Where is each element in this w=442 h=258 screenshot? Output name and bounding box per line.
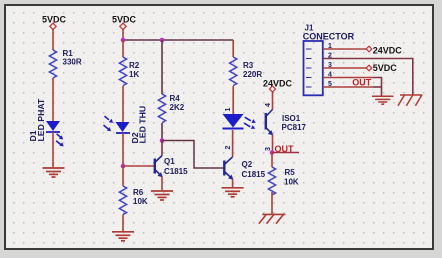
svg-text:Q2: Q2 [242,160,253,169]
wire R3 to opto anode [232,86,234,114]
wire 24VDC to pin 4 [272,92,274,110]
ground (Q2) [222,188,244,197]
svg-text:24VDC: 24VDC [263,79,293,89]
wire 5VDC to bus node [122,30,124,40]
wire pin 3 emitter to OUT node [272,135,274,153]
resistor R4 2K2 [158,94,184,123]
connector J1 body [303,24,355,96]
wire Q2 emitter to ground [232,179,234,187]
svg-text:10K: 10K [284,178,299,187]
node junction (OUT) [270,150,275,155]
svg-text:OUT: OUT [352,77,372,87]
svg-text:CONECTOR: CONECTOR [303,31,355,41]
wire pin5 OUT end [373,86,382,88]
svg-text:R4: R4 [170,94,181,103]
svg-text:220R: 220R [243,70,262,79]
wire node to R6 [122,166,124,186]
wire node to Q1 collector [161,141,163,156]
power flag 24VDC (at ISO1) [263,79,293,93]
svg-text:LED PHAT: LED PHAT [36,98,46,141]
wire 5VDC to R1 [52,30,54,50]
wire OUT node to R5 [271,153,273,168]
svg-text:OUT: OUT [275,144,295,154]
wire Q1 emitter to ground [161,177,163,191]
svg-text:R2: R2 [129,61,140,70]
power flag 5VDC (left) [42,14,67,29]
svg-text:C1815: C1815 [242,170,266,179]
svg-text:330R: 330R [63,58,82,67]
svg-text:1: 1 [225,108,232,112]
wire R1 to D1 [52,78,54,121]
svg-text:Q1: Q1 [164,157,175,166]
wire pin3 to 5VDC [323,67,366,69]
transistor Q1 C1815 [155,156,188,178]
svg-text:LED THU: LED THU [138,106,148,144]
svg-text:2K2: 2K2 [170,103,185,112]
wire D2 to base node [122,133,124,166]
ground (connector) [372,96,394,104]
svg-text:2: 2 [225,146,232,150]
ground (D1) [43,168,65,177]
wire base Q1 [123,165,154,167]
svg-text:3: 3 [265,147,272,151]
wire D1 to ground [52,132,54,167]
wire pin4 corner [373,78,382,96]
wire pin2 to chassis ground [323,59,413,95]
wire R2 to D2 [122,86,124,122]
wire OUT stub [272,152,299,154]
node junction (D2/R6/Q1 base) [121,164,126,169]
wire bus to R2 [122,40,124,57]
resistor R6 10K [119,186,147,215]
wire pin4 to ground [323,77,373,79]
svg-text:R3: R3 [243,61,254,70]
opto light arrows [244,117,256,129]
svg-text:C1815: C1815 [164,167,188,176]
wire pin1 to 24VDC [323,48,366,50]
LED D2 LED THU [104,106,148,144]
node junction (R4/Q1 collector) [160,138,165,143]
wire pin5 OUT [323,86,373,88]
wire Q2 collector to opto LED [232,130,234,157]
wire R4 to collector node [161,123,163,141]
resistor R3 220R [230,57,263,86]
svg-text:ISO1: ISO1 [282,114,301,123]
resistor R5 10K [268,167,298,195]
svg-text:5VDC: 5VDC [373,63,398,73]
wire collector node to Q2 base [162,141,224,169]
power flag 5VDC (connector) [366,63,397,73]
svg-text:24VDC: 24VDC [373,45,403,55]
power flag 5VDC (middle) [112,14,137,29]
resistor R2 1K [119,57,139,86]
svg-text:5VDC: 5VDC [112,14,137,24]
LED D1 LED PHAT [28,98,64,146]
wire bus corner to R3 [232,40,234,57]
opto-coupler ISO1 phototransistor [266,110,307,136]
power flag 24VDC (connector) [366,45,402,55]
node junction (5V bus at R4) [160,38,165,43]
wire bus 5V rail [123,39,233,41]
chassis ground (pin 2) [398,95,422,106]
ground (Q1) [151,191,173,200]
wire R6 to ground [122,215,124,232]
svg-text:R6: R6 [133,188,144,197]
opto-coupler ISO1 PC817 LED [223,114,244,129]
svg-text:10K: 10K [133,197,148,206]
node junction (5V bus at R2) [121,38,126,43]
ground (R6) [112,232,134,241]
resistor R1 330R [49,49,81,78]
svg-text:PC817: PC817 [282,123,307,132]
wire bus to R4 [161,40,163,94]
transistor Q2 C1815 [224,157,265,180]
svg-text:R5: R5 [285,168,296,177]
svg-text:5VDC: 5VDC [42,14,67,24]
svg-text:4: 4 [265,103,272,107]
chassis ground (R5) [259,214,286,223]
svg-text:1K: 1K [129,70,139,79]
wire R5 to chassis ground [271,192,273,214]
